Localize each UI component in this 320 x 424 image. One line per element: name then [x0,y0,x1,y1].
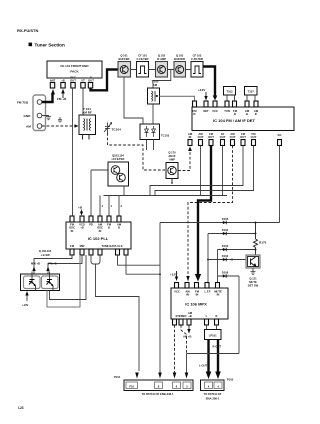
wire osc bus to IC102 with drops [104,195,228,197]
ceramic filter CF102 [191,54,203,78]
wire +10V feed into +B switch [26,294,28,301]
junction row 1 [255,222,257,224]
svg-text:+ B SW: + B SW [40,253,50,257]
svg-text:Q 101: Q 101 [120,54,128,58]
svg-text:IC 102 PLL: IC 102 PLL [88,236,109,241]
wire FE OSC down to IC102 [72,88,74,216]
ground under Q121 [251,272,256,275]
svg-text:BUFFER: BUFFER [174,57,185,61]
IC102 bottom wires [34,255,72,274]
wire dashed IC104 AM OUT to IC106 AM IN [188,146,233,278]
wire R175 to Q121 collector [255,248,257,256]
svg-text:C.FILTER: C.FILTER [137,57,149,61]
wire IC104 FM OUT 2 stair to junction [155,146,254,196]
ground at antenna GND pin [42,116,49,117]
svg-text:B: B [118,226,120,230]
junction on row 4 [231,259,233,261]
wire mute collector net vertical [255,223,257,240]
svg-text:IN: IN [71,229,74,233]
svg-text:AM RF: AM RF [82,111,92,115]
svg-text:R: R [216,314,218,318]
wire IF chain tap down to T102 [153,70,171,89]
IC106 MPX stereo decoder [171,288,228,319]
wire +B switch emitter return up to IC102 [50,255,87,300]
svg-text:IC 106 MPX: IC 106 MPX [185,302,207,307]
power FM +B feed arrow into FE101 [62,93,64,99]
svg-text:D103: D103 [222,244,229,248]
svg-text:I.F.FILTER: I.F.FILTER [112,157,125,161]
svg-text:GND: GND [24,114,32,118]
wire mute row 5 down to output mute line [238,276,240,354]
wire mute net row 4 [208,259,246,261]
svg-text:D104: D104 [222,228,229,232]
svg-text:T103: T103 [226,90,233,94]
connector P102 to patch of ENA-208-1 [201,378,234,401]
svg-text:L-OUT: L-OUT [199,364,208,368]
wire +B switch FM output up to IC102 MW pin [47,255,80,307]
svg-text:ANT: ANT [50,79,56,83]
svg-text:B: B [246,112,248,116]
wire IC104 SG pin down to diode row [279,146,281,223]
svg-text:IN: IN [99,229,102,233]
svg-text:TC104: TC104 [112,128,122,132]
svg-text:TUNE DATA CLK: TUNE DATA CLK [101,244,122,248]
wire FE VT down to T101 [82,88,84,115]
svg-text:IN: IN [196,293,199,297]
wire mute net down to connector P101 pin 5 [186,354,188,374]
svg-text:+B: +B [188,314,192,318]
svg-text:Q 121: Q 121 [249,277,257,281]
wire IC104 AM OUT pin down to osc bus [200,146,202,196]
transistor pair Q103,104 +B switch [21,249,60,291]
svg-text:IN: IN [217,293,220,297]
transistor Q102 IF amp [156,54,168,78]
svg-text:IF: IF [255,112,258,116]
transistor pair Q103,104 IF filter [108,154,129,187]
transformer T101 AM RF [79,107,96,140]
svg-text:CF 102: CF 102 [193,54,202,58]
svg-text:FE 101 FRONT END: FE 101 FRONT END [60,64,89,68]
svg-text:TO PATCH OF ENB-238-1: TO PATCH OF ENB-238-1 [142,392,174,396]
IC102 bottom pins [70,249,128,255]
resistor R175 [254,239,258,248]
transformer T102 AM [148,80,160,105]
svg-text:MW +B: MW +B [31,262,40,266]
low-pass filter LP101 [205,325,222,340]
wire mute row 2 down to IC106 L.F.F pin [207,234,209,283]
IC106 top pins [175,283,220,289]
wire IC104 FM OUT stair to junction [150,146,243,196]
svg-text:T 102: T 102 [152,80,159,84]
ceramic filter CF101 [137,54,149,78]
svg-text:Tuner Section: Tuner Section [35,43,65,48]
svg-text:PACK: PACK [70,70,79,74]
svg-text:L.F.F: L.F.F [204,290,210,294]
svg-text:AM IF: AM IF [168,154,176,158]
svg-text:R175: R175 [259,241,267,245]
svg-text:MW: MW [80,244,85,248]
wire thick L-OUT to connector P102 pin 4 [207,340,209,373]
wire mute row 3 down to IC106 MUTE IN pin [217,250,219,283]
svg-text:OUT: OUT [240,135,246,139]
svg-text:I-23: I-23 [18,406,24,410]
svg-text:+10V: +10V [22,303,29,307]
svg-text:VCC: VCC [174,290,180,294]
transistor Q121 mute det sw [246,255,260,268]
wire into IF filter box and down to IC102 PD pin [91,169,108,171]
svg-text:CF 101: CF 101 [138,54,147,58]
svg-text:BUFFER: BUFFER [119,57,130,61]
IC104 bottom labels [188,132,282,139]
svg-text:F16: F16 [129,385,134,389]
svg-text:D105: D105 [222,217,229,221]
svg-text:OUT: OUT [251,135,257,139]
svg-text:ENA-208-1: ENA-208-1 [206,397,220,401]
module FE101 front end pack [47,61,102,78]
svg-text:IC 104 FM / AM IF DET: IC 104 FM / AM IF DET [213,118,255,123]
svg-text:Q 170: Q 170 [168,151,176,155]
svg-text:P102: P102 [227,378,234,382]
svg-text:VCC: VCC [212,109,218,113]
wire thick CF102 output to IC104 FM IF pin [203,67,215,97]
IC102 PLL synthesizer [66,222,131,249]
wire IF filter box bottom drop to osc bus [123,186,125,196]
wire varactor block stubs down [147,140,154,151]
varactor block TC103 [140,124,170,140]
transistor Q103 buffer [174,54,186,78]
wire IF chain interconnections [131,69,192,71]
wire dashed IC106 stereo pin down to P101 pin 6 [174,325,176,373]
IC106 bottom labels [175,311,217,318]
svg-text:SG: SG [278,133,282,137]
svg-text:IF: IF [193,112,196,116]
svg-text:T107: T107 [248,90,255,94]
connector J101 antenna jack [17,95,46,131]
svg-text:C.FILTER: C.FILTER [191,57,203,61]
thick wire FE OUT to Q101 [91,70,119,91]
wire mute net horizontal to P101 [187,353,240,355]
IC102 top pins [70,216,121,222]
svg-text:OUT: OUT [88,79,94,83]
svg-text:IN: IN [186,293,189,297]
svg-text:FM 75Ω: FM 75Ω [17,101,29,105]
transformer T103 [224,87,236,102]
FE101 pin labels [50,76,94,83]
svg-text:DET SW: DET SW [248,284,259,288]
wire thick IC104 FM OUT down to IC106 FM IN [198,146,211,276]
wire mute net row 5 [218,275,240,277]
svg-text:AM: AM [26,125,31,129]
svg-text:FM +B: FM +B [48,262,56,266]
svg-text:B: B [234,112,236,116]
wire dashed TC104 to IF filter and Q170 [108,133,166,170]
svg-text:PD: PD [89,223,93,227]
wire long vertical net to connector P101 pin 8 [159,223,161,374]
IC106 bottom pins [173,319,219,325]
wire mute net row 1 [160,222,280,224]
capacitor to ground near GND pin [58,117,62,123]
svg-text:OUT: OUT [230,135,236,139]
svg-text:RX-FU/STN: RX-FU/STN [17,28,38,33]
IC104 top pins [193,101,259,107]
wire from Q101 output down into varactor block [124,77,143,124]
svg-text:Q 103,104: Q 103,104 [39,249,52,253]
svg-text:STEREO: STEREO [175,314,186,318]
wire dashed Q170 output up to IC104 AM IN pin [178,150,190,171]
wire dashed IC106 pin 2 down to mute line [181,325,187,354]
junction rows 2 and 4 [207,259,209,261]
svg-text:+12V: +12V [198,88,206,92]
svg-text:AMP: AMP [169,158,175,162]
IC104 bottom pins [188,140,282,146]
wire mute net row 3 [218,249,256,251]
trimmer capacitor TC104 [104,122,121,133]
IC102 bottom labels [70,244,123,248]
wire mute net row 2 [208,233,256,235]
transistor Q170 AM IF amp [166,151,178,184]
power AM +B output arrow from IC106 [188,325,190,330]
svg-text:IN: IN [189,135,192,139]
svg-text:OUT: OUT [198,135,204,139]
svg-text:OUT: OUT [220,135,226,139]
svg-text:D106: D106 [222,271,229,275]
wire FM 75ohm antenna to FE101 ANT pin [42,93,53,102]
transistor Q101 buffer [118,54,131,78]
IC104 FM/AM IF detector [192,107,294,131]
svg-text:P101: P101 [114,375,121,379]
wire IC104 AF OUT pin down to osc bus [222,146,224,196]
svg-text:+B: +B [61,79,65,83]
svg-text:OUT: OUT [208,135,214,139]
svg-text:B: B [108,226,110,230]
connector P101 to patch of ENB-238-1 [114,375,193,396]
svg-text:TC103: TC103 [161,134,170,138]
svg-text:TUN: TUN [224,109,230,113]
transformer T107 [245,87,258,102]
svg-text:VT: VT [81,79,85,83]
section heading [29,43,33,47]
junction row 2 [255,233,257,235]
svg-text:FM +B: FM +B [57,97,67,101]
svg-text:D102: D102 [222,254,229,258]
svg-text:Q 103: Q 103 [176,54,184,58]
wire thick R-OUT to connector P102 pin 4 [217,340,219,373]
FE101 pins [50,83,92,89]
svg-text:OUT: OUT [70,79,76,83]
svg-text:DET: DET [203,109,209,113]
svg-text:IF AMP: IF AMP [157,57,166,61]
svg-text:AM +B: AM +B [183,335,191,339]
svg-text:Q103,104: Q103,104 [112,154,124,158]
svg-text:Q 102: Q 102 [158,54,166,58]
wire AM antenna dashed to T101 [42,125,75,127]
svg-text:+B: +B [80,226,84,230]
svg-text:LP101: LP101 [209,334,217,338]
svg-text:+12V: +12V [170,273,178,277]
svg-text:MUTE: MUTE [249,280,257,284]
junction row 3 [255,249,257,251]
svg-text:TO PATCH OF: TO PATCH OF [204,392,222,396]
wire T102 output to IC104 pin 1 [160,96,195,101]
wire T102 bottom to varactor block [152,104,154,124]
wire Q121 emitter down [252,268,254,272]
